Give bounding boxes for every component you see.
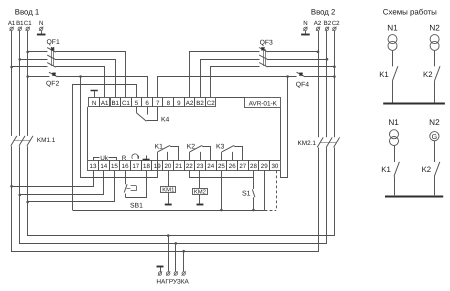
wire QF2 to terminal 6 — [58, 77, 148, 98]
wire A2 down — [318, 31, 320, 137]
node B2-QF3 — [326, 58, 329, 61]
input 2 terminal B2 — [325, 27, 329, 31]
wire terminal 23 to KM2 — [199, 171, 201, 189]
svg-text:14: 14 — [100, 163, 107, 170]
load bus B — [20, 148, 327, 244]
breaker QF1 pole 3 — [47, 63, 56, 68]
svg-text:15: 15 — [111, 163, 118, 170]
input 1 phase labels A1 B1 C1 N — [8, 20, 44, 27]
input 2 terminal N — [303, 27, 307, 31]
scheme1 K2 label — [423, 70, 433, 79]
wire B1 down — [19, 31, 21, 136]
load bus C — [28, 148, 335, 236]
node A-bus — [10, 185, 13, 188]
svg-text:A1: A1 — [101, 100, 109, 107]
K4 label — [161, 116, 170, 123]
svg-text:N: N — [303, 20, 307, 27]
svg-text:QF4: QF4 — [296, 81, 309, 88]
node QF2 branch — [79, 75, 82, 78]
node C1-QF2 — [26, 75, 29, 78]
KM2.1 linkage — [320, 142, 336, 144]
wire terminal 30 optional — [265, 171, 277, 211]
node S1 bus — [252, 209, 255, 212]
svg-text:K2: K2 — [423, 70, 433, 79]
wire B1 below KM1.1 — [19, 146, 21, 195]
svg-text:N1: N1 — [388, 118, 399, 127]
wire A1 down — [11, 31, 13, 136]
svg-text:R: R — [122, 155, 127, 162]
input 1 title — [15, 8, 39, 17]
wire C1 to QF2 — [28, 76, 50, 78]
svg-text:Uk: Uk — [100, 155, 109, 162]
terminal N neutral mark — [91, 91, 98, 98]
svg-text:N2: N2 — [429, 118, 440, 127]
scheme1 K1 label — [379, 70, 389, 79]
svg-text:K1: K1 — [381, 165, 391, 174]
svg-text:C2: C2 — [332, 20, 340, 27]
ground mark over 18 — [143, 155, 150, 159]
svg-text:A1: A1 — [8, 20, 16, 27]
scheme2 N1 label — [388, 118, 399, 127]
QF1 label — [47, 39, 60, 46]
svg-text:28: 28 — [250, 163, 257, 170]
wire B1 to QF1 pole2 — [20, 59, 48, 61]
contactor KM1.1 pole B — [19, 136, 25, 146]
wire A1 below KM1.1 — [11, 146, 13, 186]
svg-text:21: 21 — [175, 163, 182, 170]
wire B2 down — [326, 31, 328, 137]
node B-bus — [19, 194, 22, 197]
input 1 terminal N — [39, 27, 43, 31]
wire terminal 5 feed — [73, 85, 137, 211]
QF3 linkage — [264, 49, 266, 66]
scheme1 N1 label — [387, 23, 398, 32]
svg-text:QF1: QF1 — [47, 39, 60, 46]
contactor KM1.1 pole C — [27, 136, 33, 146]
load bus A — [12, 148, 319, 252]
svg-text:C1: C1 — [122, 100, 130, 107]
scheme2 K2 label — [422, 165, 432, 174]
relay contact K2 — [187, 143, 211, 160]
svg-text:НАГРУЗКА: НАГРУЗКА — [156, 278, 189, 285]
relay contact K4 — [137, 107, 158, 122]
svg-text:A2: A2 — [314, 20, 322, 27]
wire terminal 29 down — [264, 171, 266, 211]
wire load tap B — [175, 243, 177, 271]
node 25 bus — [220, 209, 223, 212]
AVR box outline — [88, 98, 281, 161]
svg-text:S1: S1 — [242, 190, 251, 197]
svg-text:7: 7 — [156, 100, 160, 107]
wire QF3 pole3 to terminal C2 — [211, 67, 260, 98]
scheme2 generator N2 — [430, 132, 439, 141]
SB1 label — [130, 203, 143, 210]
KM2 ground — [197, 195, 204, 205]
node C2-QF3 — [333, 65, 336, 68]
wire terminal 20 to KM1 — [168, 171, 170, 187]
breaker QF3 pole 1 — [259, 47, 268, 52]
contactor KM2.1 pole B — [326, 137, 332, 147]
scheme2 switch K2 — [434, 141, 440, 196]
Uk bracket — [94, 155, 117, 162]
svg-text:Ввод 1: Ввод 1 — [15, 8, 39, 17]
svg-text:8: 8 — [167, 100, 171, 107]
svg-text:K1: K1 — [379, 70, 389, 79]
input 1 N ground — [37, 31, 46, 35]
wire QF1 pole1 to terminal C1 — [56, 52, 126, 98]
breaker QF3 pole 3 — [259, 63, 268, 68]
contactor KM2.1 pole C — [334, 137, 340, 147]
svg-text:N: N — [39, 20, 43, 27]
svg-text:SB1: SB1 — [130, 203, 143, 210]
svg-text:23: 23 — [197, 163, 204, 170]
breaker QF1 pole 2 — [47, 55, 56, 60]
svg-text:QF3: QF3 — [260, 40, 273, 47]
contactor KM2.1 pole A — [317, 137, 323, 147]
load N ground — [157, 267, 164, 272]
svg-text:A2: A2 — [186, 100, 194, 107]
coil KM2 — [193, 188, 208, 195]
scheme2 switch K1 — [394, 146, 400, 196]
wire QF4 to terminal 7 — [158, 77, 297, 98]
input 1 terminal C1 — [26, 27, 30, 31]
wire load tap C — [168, 236, 170, 272]
node C1-QF1 — [26, 51, 29, 54]
wire A-bus to terminal 13 — [12, 171, 94, 187]
wire B-bus to terminal 14 — [20, 171, 104, 195]
svg-text:17: 17 — [132, 163, 139, 170]
svg-text:N: N — [92, 100, 96, 107]
schemes title — [383, 7, 437, 16]
node QF4 branch — [286, 75, 289, 78]
wire A1 to QF1 pole3 — [12, 66, 48, 68]
svg-text:27: 27 — [239, 163, 246, 170]
svg-text:25: 25 — [218, 163, 225, 170]
node C2-QF4 — [333, 75, 336, 78]
svg-text:19: 19 — [154, 163, 161, 170]
KM2.1 label — [298, 140, 317, 147]
scheme2 N2 label — [429, 118, 440, 127]
svg-text:B1: B1 — [112, 100, 120, 107]
node C-bus — [26, 201, 29, 204]
svg-text:KM1.1: KM1.1 — [37, 137, 56, 144]
wire QF4 to terminal 30 — [281, 77, 288, 178]
switch S1 — [252, 178, 255, 211]
input 1 terminal A1 — [10, 27, 14, 31]
svg-text:9: 9 — [177, 100, 181, 107]
breaker QF2 — [49, 72, 58, 77]
wire load tap A — [183, 251, 185, 271]
S1 label — [242, 190, 251, 197]
wire C2 to QF3 pole3 — [267, 66, 334, 68]
QF4 label — [296, 81, 309, 88]
node load C tap — [167, 234, 170, 237]
svg-text:QF2: QF2 — [46, 80, 59, 87]
input 2 labels — [303, 20, 340, 27]
svg-text:Ввод 2: Ввод 2 — [311, 7, 335, 16]
svg-text:N1: N1 — [387, 23, 398, 32]
svg-text:13: 13 — [90, 163, 97, 170]
wire B2 to QF3 pole2 — [267, 59, 327, 61]
R label — [122, 155, 127, 162]
svg-text:30: 30 — [271, 163, 278, 170]
svg-text:K2: K2 — [422, 165, 432, 174]
wire C2 to QF4 — [305, 76, 334, 78]
svg-text:K4: K4 — [161, 116, 170, 123]
svg-text:KM2: KM2 — [194, 188, 206, 195]
contactor KM1.1 pole A — [11, 136, 17, 146]
svg-text:KM2.1: KM2.1 — [298, 140, 317, 147]
wire QF1 pole2 to terminal B1 — [56, 60, 116, 98]
load terminal 2 — [174, 271, 178, 275]
svg-text:24: 24 — [207, 163, 214, 170]
QF3 label — [260, 40, 273, 47]
svg-text:18: 18 — [143, 163, 150, 170]
input 2 terminal A2 — [316, 27, 320, 31]
scheme1 transformer N2 — [430, 35, 439, 51]
QF2 label — [46, 80, 59, 87]
wire C1 to QF1 pole1 — [28, 51, 48, 53]
svg-text:N2: N2 — [429, 23, 440, 32]
KM1.1 label — [37, 137, 56, 144]
input 2 terminal C2 — [332, 27, 336, 31]
load terminal 3 — [182, 271, 186, 275]
input 2 N ground — [301, 31, 310, 35]
wire A2 to QF3 pole1 — [267, 51, 318, 53]
svg-text:B2: B2 — [196, 100, 204, 107]
svg-text:5: 5 — [135, 100, 139, 107]
svg-text:26: 26 — [229, 163, 236, 170]
svg-text:B2: B2 — [324, 20, 332, 27]
wire terminal 22 to 28 — [190, 171, 254, 178]
svg-text:KM1: KM1 — [162, 187, 174, 194]
scheme1 transformer N1 — [388, 35, 397, 51]
wire QF1 pole3 to terminal A1 — [56, 67, 105, 98]
scheme1 N2 label — [429, 23, 440, 32]
coil KM1 — [161, 187, 176, 194]
wire terminal 25 down — [221, 171, 223, 211]
breaker QF1 pole 1 — [47, 47, 56, 52]
pushbutton SB1 — [124, 171, 146, 198]
input 2 title — [311, 7, 335, 16]
node A2-QF3 — [317, 51, 320, 54]
relay contact K1 — [155, 143, 179, 160]
svg-text:20: 20 — [164, 163, 171, 170]
scheme2 K1 label — [381, 165, 391, 174]
svg-text:C2: C2 — [207, 100, 215, 107]
svg-text:C1: C1 — [24, 20, 32, 27]
svg-text:6: 6 — [145, 100, 149, 107]
terminal row bottom (13-30) — [88, 161, 281, 171]
breaker QF4 — [297, 72, 306, 77]
scheme1 switch K1 — [392, 51, 398, 103]
svg-text:AVR-01-K: AVR-01-K — [249, 100, 278, 107]
breaker QF3 pole 2 — [259, 55, 268, 60]
svg-text:29: 29 — [261, 163, 268, 170]
wire C1 below KM1.1 — [27, 146, 29, 202]
relay contact K3 — [216, 143, 243, 160]
load terminal N — [158, 271, 162, 275]
svg-text:K3: K3 — [216, 143, 225, 150]
KM1 ground — [165, 193, 172, 205]
wire QF3 pole1 to terminal A2 — [190, 52, 260, 98]
scheme1 bus — [383, 103, 445, 105]
scheme1 switch K2 — [435, 51, 441, 103]
scheme2 bus — [385, 196, 443, 198]
svg-text:16: 16 — [122, 163, 129, 170]
rotation mark — [132, 154, 138, 159]
terminal row top (N A1 B1 C1 5 6 7 8 9 A2 B2 C2) — [89, 98, 216, 107]
load label — [156, 278, 189, 285]
node B1-QF1 — [19, 58, 22, 61]
node load B tap — [175, 242, 178, 245]
wire C2 down — [334, 31, 336, 137]
KM1.1 linkage — [14, 140, 30, 142]
wire C1 down — [27, 31, 29, 136]
node A1-QF1 — [10, 66, 13, 69]
load terminal 1 — [166, 271, 170, 275]
node load A tap — [182, 250, 185, 253]
AVR-01-K label box — [245, 98, 281, 108]
QF1 linkage — [52, 49, 54, 66]
scheme2 transformer N1 — [390, 130, 399, 146]
svg-text:G: G — [432, 134, 437, 141]
svg-text:22: 22 — [186, 163, 193, 170]
control bus — [73, 210, 265, 212]
wire C-bus to terminal 15 — [28, 171, 115, 202]
svg-text:Схемы работы: Схемы работы — [383, 7, 437, 16]
input 1 terminal B1 — [18, 27, 22, 31]
wire QF2 branch to terminal 19 — [81, 77, 158, 178]
wire QF3 pole2 to terminal B2 — [201, 60, 260, 98]
